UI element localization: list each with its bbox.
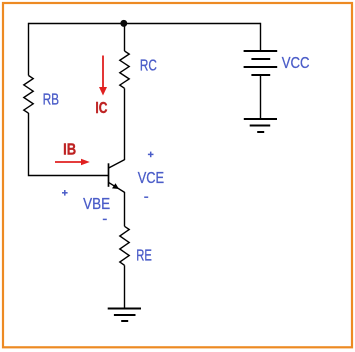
wire emitter vertical bbox=[124, 192, 126, 226]
minus VCE bbox=[144, 196, 148, 198]
wire collector vertical bbox=[124, 24, 126, 52]
minus VBE bbox=[103, 218, 107, 220]
plus VCE bbox=[148, 153, 154, 155]
svg-text:RB: RB bbox=[43, 91, 60, 108]
wire left vertical lower bbox=[29, 113, 109, 176]
arrow IC bbox=[99, 56, 107, 96]
resistor RC bbox=[120, 51, 129, 88]
node top junction bbox=[120, 20, 127, 27]
ground right bbox=[244, 119, 277, 132]
resistor RB bbox=[24, 76, 33, 114]
ground bottom bbox=[108, 309, 141, 322]
wire RC to collector bbox=[124, 88, 126, 160]
resistor RE bbox=[120, 226, 129, 265]
transistor Q1 bbox=[108, 160, 124, 193]
arrow IB bbox=[55, 159, 90, 166]
svg-text:VCE: VCE bbox=[138, 170, 164, 187]
svg-text:IB: IB bbox=[63, 142, 76, 159]
wire top rail bbox=[29, 23, 261, 25]
svg-text:VCC: VCC bbox=[282, 55, 310, 72]
svg-text:RC: RC bbox=[140, 58, 157, 75]
svg-text:IC: IC bbox=[95, 100, 107, 117]
svg-text:VBE: VBE bbox=[83, 196, 110, 213]
plus VBE bbox=[62, 192, 68, 194]
wire right drop to battery bbox=[260, 23, 262, 51]
wire left vertical upper bbox=[28, 23, 30, 76]
battery VCC bbox=[244, 51, 278, 75]
wire battery to ground bbox=[260, 75, 262, 119]
svg-text:RE: RE bbox=[136, 248, 152, 265]
wire RE to ground bbox=[124, 265, 126, 308]
